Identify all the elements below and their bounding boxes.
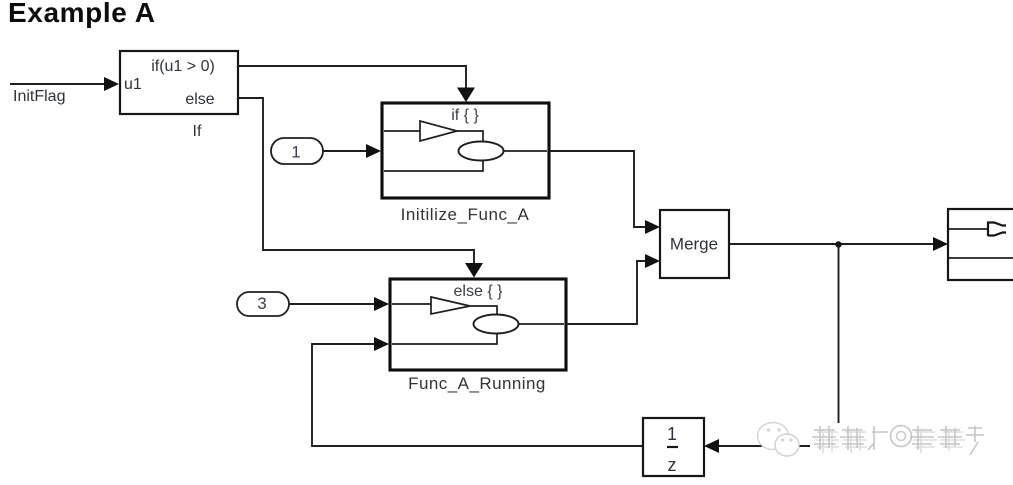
svg-text:else { }: else { } [454,283,504,300]
svg-text:Example A: Example A [8,0,156,28]
svg-text:Initilize_Func_A: Initilize_Func_A [401,205,530,224]
constant block 1 [271,138,323,164]
svg-text:3: 3 [257,294,266,313]
wire Func_A_Running output to Merge input2 [566,261,648,324]
arrowhead at If input u1 [104,77,119,91]
watermark text band [810,423,984,455]
arrowhead at Merge input2 [645,254,660,268]
svg-text:1: 1 [291,143,300,162]
arrowhead into Initilize_Func_A top port [457,88,475,103]
svg-text:Func_A_Running: Func_A_Running [408,374,546,393]
arrowhead at Merge input1 [645,220,660,234]
svg-text:Merge: Merge [670,235,718,254]
wire InitFlag to If input [10,83,106,85]
subsystem Func_A_Running [390,279,566,370]
wire constant3 to Func_A_Running [289,303,376,305]
watermark wechat icon [758,423,800,457]
junction node dot [835,241,841,247]
arrowhead at Func_A_Running input1 [374,297,389,311]
svg-text:If: If [193,123,202,140]
unit delay block 1/z [643,418,704,476]
svg-text:1: 1 [667,424,677,444]
wire Merge output to right subsystem [729,243,936,245]
svg-text:else: else [185,91,214,108]
If block [120,51,238,114]
wire junction down to unit delay input [719,244,839,446]
watermark @ circle [891,426,912,447]
svg-text:if(u1 > 0): if(u1 > 0) [151,58,215,75]
svg-text:InitFlag: InitFlag [13,88,65,105]
wire If output2 else to Func_A_Running top [238,98,474,265]
arrowhead into right subsystem [933,237,948,251]
wire unit delay output feedback to Func_A_Running input2 [312,344,643,446]
subsystem Initilize_Func_A [382,103,549,198]
arrowhead at Func_A_Running input2 [374,337,389,351]
wire Initilize_Func_A output to Merge input1 [550,151,648,227]
svg-text:u1: u1 [124,76,142,93]
arrowhead at unit delay input (pointing left) [704,439,719,453]
svg-text:z: z [668,455,677,475]
arrowhead at Initilize_Func_A input [366,144,381,158]
svg-text:if { }: if { } [451,107,479,124]
wire constant1 to Initilize_Func_A [323,150,368,152]
subsystem partial at right edge [948,209,1013,280]
constant block 3 [237,292,289,316]
Merge block [660,210,729,278]
arrowhead into Func_A_Running top port [465,263,483,278]
wire If output1 to Initilize_Func_A top [238,66,466,90]
